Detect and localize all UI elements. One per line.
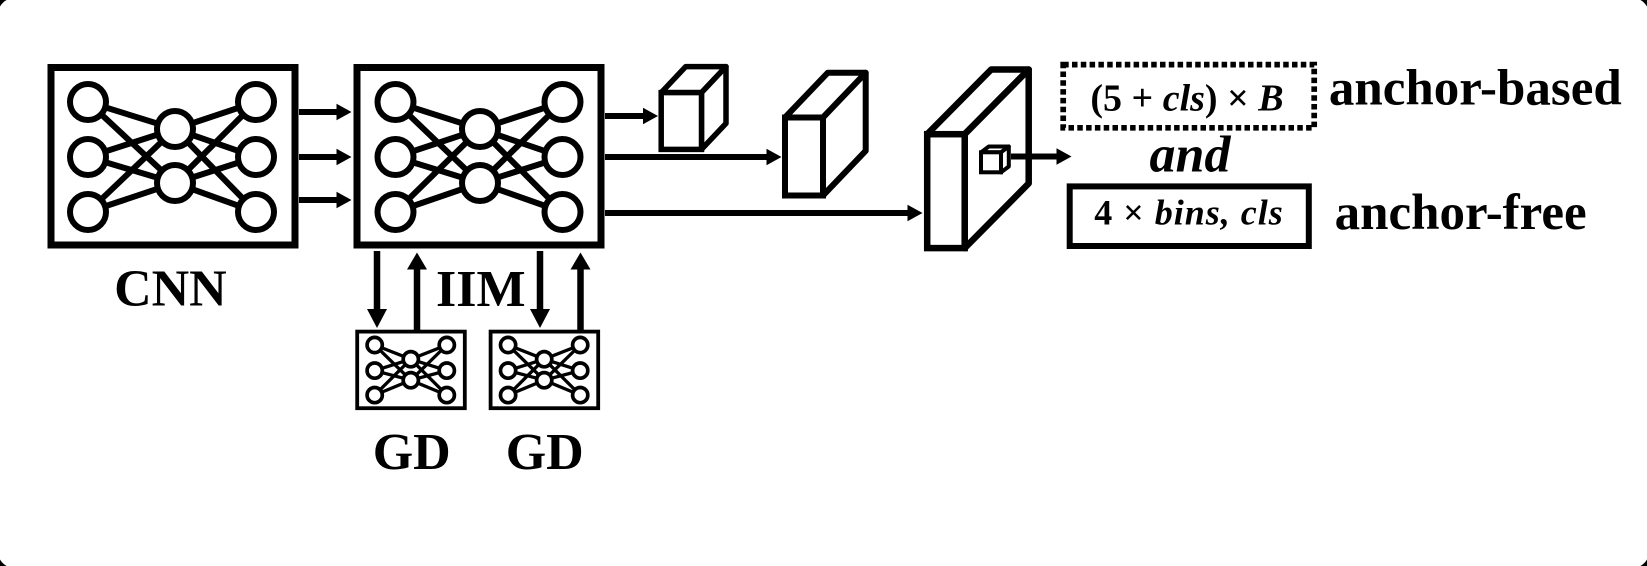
- svg-text:(5 + cls) × B: (5 + cls) × B: [1090, 78, 1283, 120]
- svg-text:GD: GD: [373, 424, 451, 481]
- svg-text:4 × bins, cls: 4 × bins, cls: [1094, 193, 1284, 233]
- svg-text:CNN: CNN: [114, 261, 227, 318]
- svg-text:IIM: IIM: [436, 261, 526, 318]
- svg-text:and: and: [1150, 127, 1232, 184]
- svg-text:anchor-free: anchor-free: [1335, 185, 1587, 241]
- svg-text:GD: GD: [506, 424, 584, 481]
- svg-text:anchor-based: anchor-based: [1329, 61, 1622, 117]
